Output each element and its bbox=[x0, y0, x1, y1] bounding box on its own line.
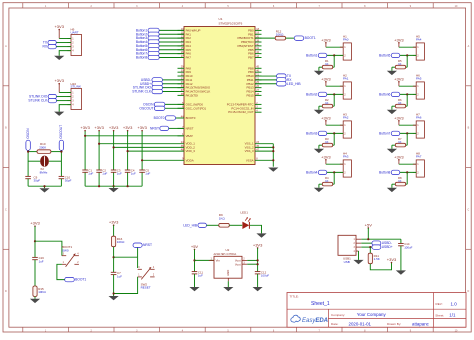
net label Button5 bbox=[136, 44, 159, 48]
wire vdd column 1 bbox=[84, 131, 86, 170]
resistor R5 bbox=[395, 65, 405, 69]
ground bbox=[54, 56, 64, 60]
svg-text:+3V3: +3V3 bbox=[321, 115, 331, 120]
wire r9 to led bbox=[229, 224, 242, 226]
pin 6 OSC_OUT(PD1 bbox=[178, 106, 207, 111]
pin 28 PB15 bbox=[247, 93, 262, 98]
svg-text:+3V3: +3V3 bbox=[321, 37, 331, 42]
header H6 bbox=[413, 73, 425, 99]
svg-text:1uF: 1uF bbox=[131, 172, 136, 176]
svg-text:2020-01-01: 2020-01-01 bbox=[349, 321, 372, 326]
wire stlink clk bbox=[57, 100, 72, 102]
pin 13 PA3 bbox=[178, 39, 192, 44]
svg-text:Button6: Button6 bbox=[379, 92, 391, 96]
junction bbox=[98, 143, 100, 145]
svg-text:STLINK CLK: STLINK CLK bbox=[132, 90, 152, 94]
capacitor C16 bbox=[32, 257, 38, 259]
wire stlink dio bbox=[57, 96, 72, 98]
wire Button6 bbox=[399, 93, 416, 95]
ground bbox=[314, 110, 324, 114]
pin 42 PB6 bbox=[248, 51, 261, 56]
svg-text:+3V3: +3V3 bbox=[253, 242, 263, 247]
wire h9 pin4 to gnd bbox=[59, 51, 71, 56]
svg-text:Drawn By:: Drawn By: bbox=[387, 322, 401, 326]
junction bbox=[367, 238, 369, 240]
wire r15 to gnd bbox=[34, 297, 36, 299]
svg-text:10KΩ: 10KΩ bbox=[117, 240, 125, 244]
wire Button5 bbox=[399, 54, 416, 56]
svg-text:Vout: Vout bbox=[235, 262, 241, 266]
junction bbox=[27, 151, 29, 153]
capacitor C1 bbox=[82, 170, 88, 172]
wire c14 bbox=[400, 239, 402, 243]
power flag +3V3 bbox=[109, 220, 119, 226]
junction bbox=[333, 132, 335, 134]
pin 47 VSS_3 bbox=[245, 149, 260, 154]
power flag +3V3 bbox=[394, 37, 404, 47]
wire to R4 bbox=[333, 172, 335, 184]
svg-text:+3V3: +3V3 bbox=[94, 125, 104, 130]
svg-text:1uF: 1uF bbox=[117, 274, 122, 278]
capacitor C11 bbox=[192, 272, 198, 274]
junction bbox=[141, 159, 143, 161]
net label BOOT1 net bbox=[294, 36, 316, 40]
svg-text:1KΩ: 1KΩ bbox=[219, 216, 226, 220]
wire OSCIN to mcu bbox=[165, 103, 184, 105]
svg-text:+3V3: +3V3 bbox=[394, 76, 404, 81]
net label Button4 bbox=[136, 40, 159, 44]
svg-text:Button8: Button8 bbox=[379, 170, 391, 174]
power flag +5V bbox=[191, 244, 199, 250]
power flag +3V3 bbox=[94, 125, 104, 131]
svg-text:TITLE:: TITLE: bbox=[290, 295, 299, 299]
pin 38 PA15(TDI bbox=[178, 93, 199, 98]
power flag +3V3 bbox=[137, 125, 147, 131]
resistor R1 bbox=[322, 65, 332, 69]
wire to R6 bbox=[406, 94, 408, 106]
svg-text:AZ1117EH-3.3TRG1: AZ1117EH-3.3TRG1 bbox=[214, 253, 237, 256]
net label TX bbox=[277, 74, 292, 78]
svg-text:LED_HIB: LED_HIB bbox=[183, 223, 198, 227]
resistor R4 bbox=[322, 182, 332, 186]
svg-text:PA1: PA1 bbox=[343, 77, 349, 81]
svg-text:1K: 1K bbox=[398, 140, 402, 144]
pin 30 PA9 bbox=[178, 70, 192, 75]
header H8 bbox=[413, 151, 425, 177]
junction bbox=[113, 256, 115, 258]
net label Button6 bbox=[136, 48, 159, 52]
wire x2 row bbox=[28, 160, 40, 162]
ground bbox=[387, 188, 397, 192]
wire LED_HIB to mcu bbox=[255, 83, 277, 85]
pin 16 PA6 bbox=[178, 51, 192, 56]
power flag +3V3 bbox=[321, 115, 331, 125]
net label RX bbox=[277, 78, 293, 82]
svg-text:PA2: PA2 bbox=[343, 116, 349, 120]
wire Button3 bbox=[326, 132, 343, 134]
net label NRST net 2 bbox=[133, 243, 152, 247]
net label NRST net bbox=[150, 126, 169, 130]
wire Button4 to PA3 bbox=[159, 41, 184, 43]
svg-text:D: D bbox=[468, 290, 470, 293]
easyeda logo bbox=[291, 315, 328, 324]
wire usb vbus bbox=[367, 228, 369, 239]
junction bbox=[127, 185, 129, 187]
junction bbox=[406, 171, 408, 173]
svg-text:USB: USB bbox=[344, 260, 350, 264]
junction bbox=[272, 150, 274, 152]
svg-text:REV:: REV: bbox=[436, 302, 443, 306]
wire R6 to gnd bbox=[391, 106, 393, 110]
svg-text:PB15: PB15 bbox=[247, 93, 254, 97]
net label STLINK DIO bbox=[29, 94, 57, 98]
svg-text:10KΩ: 10KΩ bbox=[276, 32, 284, 36]
net label Button3 bbox=[136, 36, 159, 40]
pin 15 PA5 bbox=[178, 47, 192, 52]
ground bbox=[39, 188, 49, 192]
pin 17 PA7 bbox=[178, 55, 192, 60]
svg-text:OSCIN: OSCIN bbox=[26, 128, 30, 139]
svg-text:PA7: PA7 bbox=[186, 55, 192, 59]
ground bbox=[314, 149, 324, 153]
ground bbox=[256, 233, 266, 237]
wire OSCOUT to mcu bbox=[165, 107, 184, 109]
junction bbox=[257, 259, 259, 261]
ground bbox=[54, 112, 64, 116]
wire Button1 to PA0 bbox=[159, 29, 184, 31]
wire usbd- bbox=[361, 242, 372, 244]
net label STLINK CLK bbox=[132, 89, 162, 93]
wire crystal right bbox=[60, 150, 62, 176]
wire 3v3 to h10 pin1 bbox=[59, 92, 71, 94]
pin 26 PB13 bbox=[247, 85, 262, 90]
svg-text:Sheet_1: Sheet_1 bbox=[311, 301, 330, 307]
wire to R2 bbox=[333, 94, 335, 106]
wire Button5 to PA4 bbox=[159, 45, 184, 47]
wire USBD+ to mcu bbox=[163, 83, 185, 85]
svg-text:Button7: Button7 bbox=[379, 131, 391, 135]
ground bbox=[314, 188, 324, 192]
svg-text:STM32F103C8T6: STM32F103C8T6 bbox=[219, 21, 243, 25]
power flag +3V3 bbox=[321, 154, 331, 164]
pin 48 VDD_3 bbox=[181, 149, 196, 154]
pin 9 VDDA bbox=[182, 158, 194, 163]
pin 2 PC13-TAMPER-RTC bbox=[227, 102, 262, 107]
junction bbox=[98, 185, 100, 187]
svg-text:+3V3: +3V3 bbox=[123, 125, 133, 130]
pin 39 PB3(TDO bbox=[241, 39, 261, 44]
svg-text:+3V3: +3V3 bbox=[394, 154, 404, 159]
resistor R8 bbox=[395, 182, 405, 186]
svg-text:+3V3: +3V3 bbox=[54, 24, 64, 29]
wire tx bbox=[56, 42, 71, 44]
net label Button8 bbox=[136, 55, 159, 59]
pin 45 PB8 bbox=[248, 66, 261, 71]
svg-text:RX: RX bbox=[43, 45, 48, 49]
mcu U1 STM32F103C8T6 body bbox=[184, 17, 255, 164]
pin 4 PC15-OSC32_OUT bbox=[228, 110, 261, 115]
svg-text:1/1: 1/1 bbox=[449, 313, 456, 318]
net label Button7 bbox=[136, 51, 159, 55]
resistor R6 bbox=[395, 104, 405, 108]
junction bbox=[113, 185, 115, 187]
net label USBD- bbox=[141, 78, 163, 82]
wire r10 row bbox=[28, 151, 37, 153]
ground bbox=[314, 71, 324, 75]
pin 25 PB12 bbox=[247, 81, 262, 86]
net label USBD- net 2 bbox=[372, 241, 392, 245]
wire NRST tag bbox=[169, 127, 184, 129]
net label BOOT0 net bbox=[154, 116, 176, 120]
wire vdd column 5 bbox=[141, 131, 143, 170]
power flag +5V bbox=[365, 222, 373, 228]
svg-text:PA7: PA7 bbox=[416, 155, 422, 159]
ground bbox=[109, 188, 119, 192]
wire vout bus bbox=[247, 259, 257, 261]
svg-text:+3V3: +3V3 bbox=[137, 125, 147, 130]
ground bbox=[353, 260, 363, 264]
wire 3v3 to H8 pin1 bbox=[399, 163, 416, 165]
net label OSCIN vertical bbox=[26, 128, 30, 151]
capacitor C10 bbox=[59, 176, 65, 178]
svg-text:STLINK: STLINK bbox=[71, 85, 82, 89]
svg-text:1uF: 1uF bbox=[117, 172, 122, 176]
pin 24 VDD_1 bbox=[181, 141, 196, 146]
svg-text:OSCOUT: OSCOUT bbox=[59, 125, 63, 139]
wire Button6 to PA5 bbox=[159, 49, 184, 51]
svg-text:1uF: 1uF bbox=[39, 260, 44, 264]
svg-text:Button4: Button4 bbox=[306, 170, 318, 174]
svg-text:SW0: SW0 bbox=[62, 248, 69, 252]
svg-text:VBAT: VBAT bbox=[186, 134, 194, 138]
svg-text:Vin: Vin bbox=[216, 258, 221, 262]
svg-text:1K: 1K bbox=[398, 101, 402, 105]
wire boot0 vertical bbox=[34, 226, 36, 257]
svg-text:10KΩ: 10KΩ bbox=[38, 290, 46, 294]
svg-text:EasyEDA: EasyEDA bbox=[302, 318, 328, 324]
svg-text:200K: 200K bbox=[39, 145, 46, 149]
wire 3v3 to H4 pin1 bbox=[326, 163, 343, 165]
power flag +3V3 bbox=[394, 154, 404, 164]
svg-text:attapanc: attapanc bbox=[412, 321, 430, 326]
wire Button8 to PA7 bbox=[159, 56, 184, 58]
svg-text:+3V3: +3V3 bbox=[30, 221, 40, 226]
pin 12 PA2 bbox=[178, 36, 192, 41]
pin 43 PB7 bbox=[248, 55, 261, 60]
wire Button8 bbox=[399, 171, 416, 173]
svg-text:Button5: Button5 bbox=[379, 53, 391, 57]
svg-text:+3V3: +3V3 bbox=[394, 115, 404, 120]
power flag +3V3 bbox=[109, 125, 119, 131]
wire Button7 bbox=[399, 132, 416, 134]
wire TX to mcu bbox=[255, 75, 277, 77]
pin 14 PA4 bbox=[178, 43, 192, 48]
wire BOOT0 tag bbox=[176, 117, 185, 119]
svg-text:NRST: NRST bbox=[186, 126, 194, 130]
wire 5v vertical bbox=[194, 250, 196, 272]
pin 8 VSSA bbox=[246, 158, 258, 163]
junction bbox=[113, 146, 115, 148]
pin 44 BOOT0 bbox=[178, 115, 196, 120]
svg-text:100uF: 100uF bbox=[261, 274, 269, 278]
svg-text:VSS_3: VSS_3 bbox=[245, 149, 254, 153]
svg-text:LED_HIB: LED_HIB bbox=[287, 82, 302, 86]
svg-text:1K: 1K bbox=[325, 101, 329, 105]
svg-text:Date:: Date: bbox=[331, 322, 339, 326]
svg-text:PA3: PA3 bbox=[343, 155, 349, 159]
net label Button1 bbox=[306, 53, 327, 57]
resistor R10 bbox=[37, 150, 51, 154]
svg-text:C: C bbox=[5, 208, 7, 211]
junction bbox=[113, 292, 115, 294]
wire rx bbox=[56, 46, 71, 48]
svg-text:+5V: +5V bbox=[191, 244, 199, 249]
svg-text:BOOT1: BOOT1 bbox=[75, 278, 86, 282]
wire Button4 bbox=[326, 171, 343, 173]
ground bbox=[268, 168, 278, 172]
net label STLINK DIO bbox=[133, 85, 163, 89]
switch SW2 RESET bbox=[138, 267, 155, 290]
resistor R3 bbox=[322, 143, 332, 147]
resistor R7 bbox=[395, 143, 405, 147]
ground bbox=[109, 296, 119, 300]
pin 41 PB5 bbox=[248, 47, 261, 52]
svg-text:+3V3: +3V3 bbox=[394, 37, 404, 42]
svg-text:PC15-OSC32_OUT: PC15-OSC32_OUT bbox=[228, 110, 254, 114]
pin 40 PB4(NTRST bbox=[238, 43, 262, 48]
wire h10 pin4 to gnd bbox=[59, 105, 71, 112]
pin 46 PB9 bbox=[248, 70, 261, 75]
power flag +3V3 bbox=[321, 76, 331, 86]
wire 3v3 to H2 pin1 bbox=[326, 85, 343, 87]
svg-text:1uF: 1uF bbox=[88, 172, 93, 176]
svg-text:1uF: 1uF bbox=[198, 274, 203, 278]
svg-text:GND: GND bbox=[226, 270, 230, 276]
wire u2 gnd bbox=[227, 281, 229, 287]
wire Button2 bbox=[326, 93, 343, 95]
pin 31 PA10 bbox=[178, 73, 193, 78]
wire 3v3 to H6 pin1 bbox=[399, 85, 416, 87]
header H1 bbox=[340, 34, 352, 60]
wire 3v3 to h9 pin1 bbox=[59, 38, 71, 40]
wire cap ground rail bbox=[85, 185, 142, 187]
net label RX bbox=[43, 44, 57, 48]
svg-text:+5V: +5V bbox=[365, 222, 373, 227]
wire Button1 bbox=[326, 54, 343, 56]
wire R4 to gnd bbox=[318, 184, 320, 188]
svg-text:PA6: PA6 bbox=[416, 116, 422, 120]
header H5 bbox=[413, 34, 425, 60]
power flag +3V3 bbox=[30, 221, 40, 227]
wire led to gnd bbox=[250, 225, 262, 233]
junction bbox=[257, 263, 259, 265]
wire Button2 to PA1 bbox=[159, 33, 184, 35]
junction bbox=[127, 150, 129, 152]
svg-text:1K: 1K bbox=[325, 140, 329, 144]
svg-text:30pF: 30pF bbox=[34, 179, 41, 183]
resistor R2 bbox=[322, 104, 332, 108]
net label Button3 bbox=[306, 131, 327, 135]
svg-text:1uF: 1uF bbox=[102, 172, 107, 176]
power flag +3V3 bbox=[123, 125, 133, 131]
led LED1 bbox=[240, 210, 250, 229]
wire vdd column 2 bbox=[98, 131, 100, 170]
svg-text:D: D bbox=[5, 290, 7, 293]
svg-text:1uF: 1uF bbox=[145, 172, 150, 176]
header H2 bbox=[340, 73, 352, 99]
svg-text:100uF: 100uF bbox=[404, 246, 412, 250]
pin 3 PC14-OSC32_IN bbox=[231, 106, 261, 111]
capacitor C4 bbox=[125, 170, 131, 172]
wire junction to sw2 bbox=[114, 256, 138, 258]
svg-text:BOOT0: BOOT0 bbox=[186, 116, 196, 120]
svg-text:Sheet:: Sheet: bbox=[435, 313, 444, 317]
svg-text:OSC_OUT(PD1: OSC_OUT(PD1 bbox=[186, 106, 207, 110]
ground bbox=[387, 71, 397, 75]
svg-text:+3V3: +3V3 bbox=[321, 76, 331, 81]
resistor R15 bbox=[33, 286, 37, 297]
pin 36 VDD_2 bbox=[181, 145, 196, 150]
junction bbox=[406, 54, 408, 56]
wire to R3 bbox=[333, 133, 335, 145]
svg-text:+3V3: +3V3 bbox=[80, 125, 90, 130]
svg-text:Button2: Button2 bbox=[306, 92, 318, 96]
crystal X2 8MHz bbox=[40, 156, 49, 167]
net label Button7 bbox=[379, 131, 400, 135]
svg-text:PA0: PA0 bbox=[343, 38, 349, 42]
junction bbox=[60, 151, 62, 153]
wire nrst vertical bbox=[113, 225, 115, 236]
wire to R5 bbox=[406, 55, 408, 67]
ground bbox=[223, 287, 233, 291]
ground bbox=[189, 287, 199, 291]
power flag +3V3 bbox=[80, 125, 90, 131]
capacitor C9 bbox=[25, 176, 31, 178]
wire R8 to gnd bbox=[391, 184, 393, 188]
junction bbox=[406, 132, 408, 134]
svg-text:1.0: 1.0 bbox=[451, 301, 458, 306]
ground bbox=[387, 110, 397, 114]
junction bbox=[34, 240, 36, 242]
resistor R12 bbox=[275, 36, 285, 40]
junction bbox=[43, 185, 45, 187]
wire R1 to gnd bbox=[318, 67, 320, 71]
wire r11 bbox=[369, 247, 371, 253]
wire vdd column 3 bbox=[113, 131, 115, 170]
net label OSCIN bbox=[143, 102, 165, 106]
pin 20 PB2/BOOT1 bbox=[238, 36, 262, 41]
svg-text:VDDA: VDDA bbox=[186, 158, 194, 162]
power flag +3V3 bbox=[253, 242, 263, 248]
wire R7 to gnd bbox=[391, 145, 393, 149]
net label LED_HIB net 2 bbox=[183, 223, 206, 227]
svg-text:Company:: Company: bbox=[331, 313, 345, 317]
wire to R7 bbox=[406, 133, 408, 145]
net label Button1 bbox=[136, 28, 159, 32]
wire R2 to gnd bbox=[318, 106, 320, 110]
pin 7 NRST bbox=[178, 126, 194, 131]
resistor R11 bbox=[368, 253, 372, 264]
junction bbox=[272, 146, 274, 148]
svg-text:USBD+: USBD+ bbox=[382, 245, 393, 249]
regulator U2 AZ1117EH-3.3 bbox=[209, 248, 247, 281]
wire RX to mcu bbox=[255, 79, 277, 81]
junction bbox=[333, 171, 335, 173]
wire 3v3 to H1 pin1 bbox=[326, 46, 343, 48]
pin 1 VBAT bbox=[178, 133, 194, 138]
pin 33 PA12 bbox=[178, 81, 193, 86]
junction bbox=[333, 93, 335, 95]
